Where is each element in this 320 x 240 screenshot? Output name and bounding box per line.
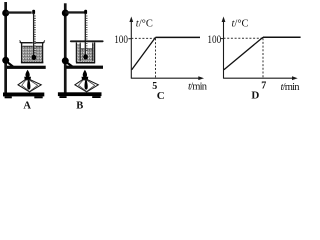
dashed 100 line D [224, 37, 264, 39]
label A [23, 101, 31, 112]
y-axis label t/°C for C [136, 19, 153, 30]
svg-text:7: 7 [261, 80, 266, 91]
lid on beaker B [71, 40, 103, 42]
inner vessel B [80, 43, 93, 61]
label C [157, 90, 165, 102]
x-axis label t/min for C [188, 81, 208, 92]
svg-text:100: 100 [207, 32, 221, 46]
clamp boss A upper [2, 10, 9, 17]
svg-text:100: 100 [114, 32, 128, 46]
100 label C [114, 32, 128, 46]
wick collar B [82, 77, 89, 80]
beaker B [76, 42, 95, 62]
wick collar A [24, 77, 31, 80]
svg-text:D: D [251, 89, 259, 101]
beaker A [20, 40, 45, 62]
stand rod B [64, 3, 67, 93]
svg-text:C: C [157, 90, 165, 102]
clamp boss A lower [2, 57, 9, 64]
100 label D [207, 32, 221, 46]
flame B [83, 70, 87, 78]
heating curve C rising segment [132, 37, 156, 69]
heating curve D boiling plateau [263, 36, 301, 38]
water in beaker A [22, 46, 42, 61]
stand rod A [4, 2, 7, 93]
stand base B [58, 92, 102, 98]
flame A [25, 70, 29, 78]
svg-text:t/°C: t/°C [136, 19, 153, 30]
svg-text:t/°C: t/°C [232, 19, 249, 30]
thermometer B [83, 14, 88, 60]
label B [76, 100, 83, 111]
label D [251, 89, 259, 101]
tick label 5 [152, 81, 157, 92]
clamp bar A [6, 11, 32, 13]
dashed vertical at 5 for C [155, 38, 157, 78]
x-axis label t/min for D [281, 82, 301, 93]
dashed 100 line C [131, 37, 155, 39]
ring strut B [66, 62, 73, 67]
water in beaker B [77, 43, 93, 62]
svg-text:t/min: t/min [188, 81, 208, 92]
clamp bar B [65, 11, 85, 13]
heating curve C boiling plateau [156, 36, 201, 38]
x-axis D [224, 76, 298, 80]
clamp boss B upper [62, 10, 69, 17]
heating curve D rising segment [224, 37, 263, 70]
thermometer A [32, 14, 37, 60]
100 tick D [221, 38, 224, 40]
iron ring support A [7, 66, 46, 69]
y-axis C [129, 17, 133, 79]
tick label 7 [261, 80, 266, 91]
svg-text:B: B [76, 100, 83, 111]
iron ring support B [66, 66, 103, 69]
alcohol lamp body A [18, 80, 41, 92]
stand base A [3, 93, 44, 99]
y-axis D [222, 17, 226, 79]
svg-text:A: A [23, 101, 31, 111]
y-axis label t/°C for D [232, 19, 249, 30]
100 tick C [128, 38, 131, 40]
thermometer holder A [32, 10, 35, 15]
alcohol lamp body B [75, 80, 98, 92]
clamp boss B lower [62, 57, 69, 64]
thermometer holder B [84, 10, 87, 15]
dashed vertical at 7 for D [262, 38, 264, 78]
svg-text:t/min: t/min [281, 82, 301, 93]
ring strut A [6, 61, 13, 67]
x-axis C [131, 76, 204, 80]
